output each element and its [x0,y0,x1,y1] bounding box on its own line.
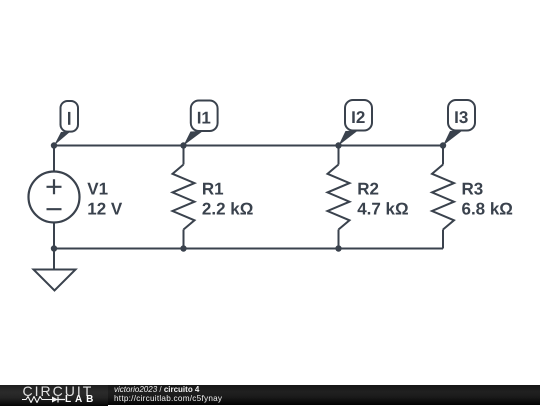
svg-text:R2: R2 [357,180,379,199]
svg-text:12 V: 12 V [87,200,123,219]
svg-text:R1: R1 [202,180,224,199]
svg-text:2.2 kΩ: 2.2 kΩ [202,200,253,219]
svg-text:I3: I3 [454,108,468,127]
svg-text:I1: I1 [197,109,211,128]
svg-text:V1: V1 [87,180,108,199]
svg-text:R3: R3 [462,180,484,199]
svg-text:I2: I2 [351,108,365,127]
svg-text:6.8 kΩ: 6.8 kΩ [462,200,513,219]
svg-text:4.7 kΩ: 4.7 kΩ [357,200,408,219]
